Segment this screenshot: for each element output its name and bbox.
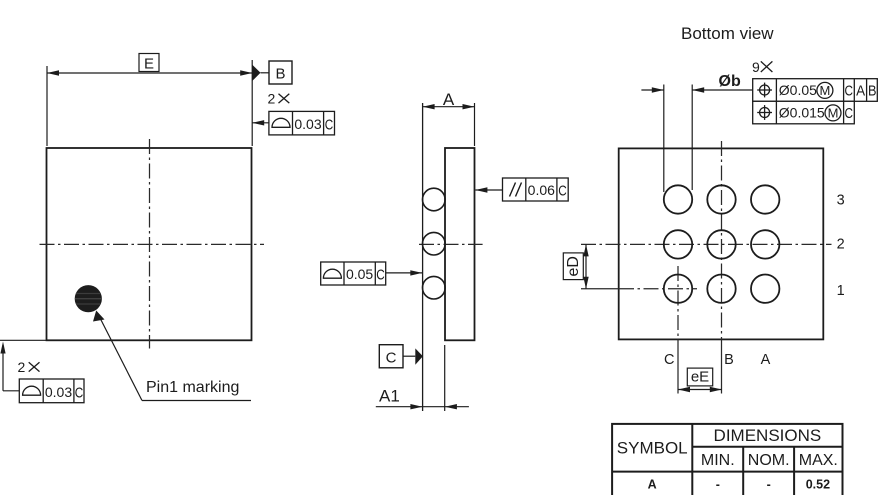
dimension E extension lines (47, 60, 252, 146)
svg-text:2: 2 (837, 237, 845, 253)
svg-text:M: M (819, 83, 830, 98)
dimension label E box (139, 54, 159, 73)
svg-text:C: C (664, 352, 674, 368)
arrow from parallelism FCF to body (475, 187, 502, 192)
Ob extension lines (664, 85, 692, 193)
FCF parallelism 0.06 C (503, 178, 569, 201)
datum C filled triangle (403, 348, 423, 364)
svg-text:C: C (75, 384, 84, 401)
svg-text:A: A (648, 477, 657, 491)
svg-text:9: 9 (752, 59, 760, 75)
svg-text:C: C (845, 105, 854, 122)
svg-text:3: 3 (837, 193, 845, 209)
vertical centerline of top view (149, 139, 151, 349)
svg-text:eE: eE (691, 369, 709, 386)
ball A2 (751, 230, 779, 258)
svg-text:E: E (144, 56, 154, 73)
Ob dimension line (641, 87, 752, 92)
svg-text:MAX.: MAX. (799, 452, 838, 469)
column B centerline (721, 141, 723, 394)
Ob label (719, 73, 741, 90)
bottom-left leader with up arrow (0, 342, 19, 391)
svg-text:-: - (767, 477, 771, 491)
svg-text:eD: eD (565, 256, 582, 276)
dimension A extension line (474, 103, 476, 146)
svg-text:DIMENSIONS: DIMENSIONS (714, 426, 822, 445)
A1 extension line (444, 345, 446, 411)
side view ball 2 (423, 232, 446, 255)
ball C2 (664, 230, 692, 258)
svg-text:-: - (716, 477, 720, 491)
svg-text:2: 2 (268, 90, 276, 106)
eD dimension line with arrows (583, 244, 588, 288)
svg-text:C: C (558, 182, 567, 199)
bottom view title (681, 24, 774, 43)
svg-text:MIN.: MIN. (701, 452, 735, 469)
ball A3 (751, 185, 779, 213)
svg-text:C: C (325, 117, 334, 134)
svg-text:A: A (761, 352, 771, 368)
ball C1 (664, 275, 692, 303)
eD label box (rotated) (563, 253, 583, 280)
2x label (bottom left) (18, 359, 40, 375)
svg-text:A: A (443, 90, 455, 109)
side view seating plane line (422, 103, 424, 411)
side view centerline (419, 243, 483, 245)
svg-text:Pin1 marking: Pin1 marking (146, 379, 239, 396)
ball B1 (707, 275, 735, 303)
svg-text:0.05: 0.05 (346, 266, 373, 282)
svg-text:SYMBOL: SYMBOL (617, 439, 688, 458)
svg-text:C: C (386, 349, 397, 366)
svg-text:0.03: 0.03 (294, 116, 321, 132)
2x label (top right) (268, 90, 290, 106)
svg-text:0.06: 0.06 (528, 182, 555, 198)
FCF profile 0.03 C (bottom left) (19, 379, 84, 403)
svg-text:C: C (376, 266, 385, 283)
pin1 marking filled circle (75, 285, 102, 312)
dimension A1 line with arrows (376, 404, 469, 409)
pin1 leader line and label (93, 311, 251, 401)
top view body outline (47, 148, 252, 340)
bottom edge extension line (to left image edge) (0, 339, 46, 341)
FCF profile 0.03 C (top right) (269, 111, 335, 134)
dimension E line with arrows (47, 70, 252, 75)
svg-text:NOM.: NOM. (748, 452, 790, 469)
side view ball 3 (423, 276, 446, 299)
svg-text:Ø0.05: Ø0.05 (779, 82, 817, 98)
side view ball 1 (423, 188, 446, 211)
FCF position row 2 (753, 101, 855, 124)
side view body outline (445, 148, 475, 340)
arrow from profile FCF to seating plane (386, 270, 423, 275)
eE dimension line with arrows (678, 387, 722, 392)
ball B3 (707, 185, 735, 213)
row 1 centerline (581, 288, 697, 290)
dimension label A1 (379, 387, 400, 406)
svg-text:C: C (845, 83, 854, 100)
svg-text:B: B (724, 352, 734, 368)
svg-text:2: 2 (18, 359, 26, 375)
horizontal centerline of top view (40, 243, 265, 245)
svg-text:A1: A1 (379, 387, 400, 406)
svg-text:1: 1 (837, 283, 845, 299)
ball B2 (707, 230, 735, 258)
svg-text:Bottom view: Bottom view (681, 24, 774, 43)
dimension A line with outward arrows (423, 104, 475, 109)
svg-text:Øb: Øb (719, 73, 741, 90)
ball A1 (751, 275, 779, 303)
table grid (612, 424, 842, 495)
dimension label A (443, 90, 455, 109)
svg-text:Ø0.015: Ø0.015 (779, 105, 825, 121)
9x label (752, 59, 772, 75)
datum C box (379, 345, 403, 368)
datum B filled triangle (252, 65, 269, 81)
datum B box (269, 61, 292, 84)
eE label box (687, 368, 712, 386)
svg-text:0.52: 0.52 (806, 477, 830, 491)
svg-text:M: M (828, 106, 839, 121)
arrow from FCF to extension line (252, 120, 269, 125)
bottom view body outline (619, 148, 824, 339)
FCF position row 1 (753, 79, 878, 102)
svg-text:0.03: 0.03 (45, 384, 72, 400)
row 2 centerline (581, 243, 832, 245)
svg-text:B: B (868, 83, 877, 100)
svg-text:A: A (856, 83, 865, 100)
FCF profile 0.05 C (321, 262, 386, 285)
svg-text:B: B (275, 66, 285, 83)
column C centerline (677, 266, 679, 394)
ball C3 (664, 185, 692, 213)
